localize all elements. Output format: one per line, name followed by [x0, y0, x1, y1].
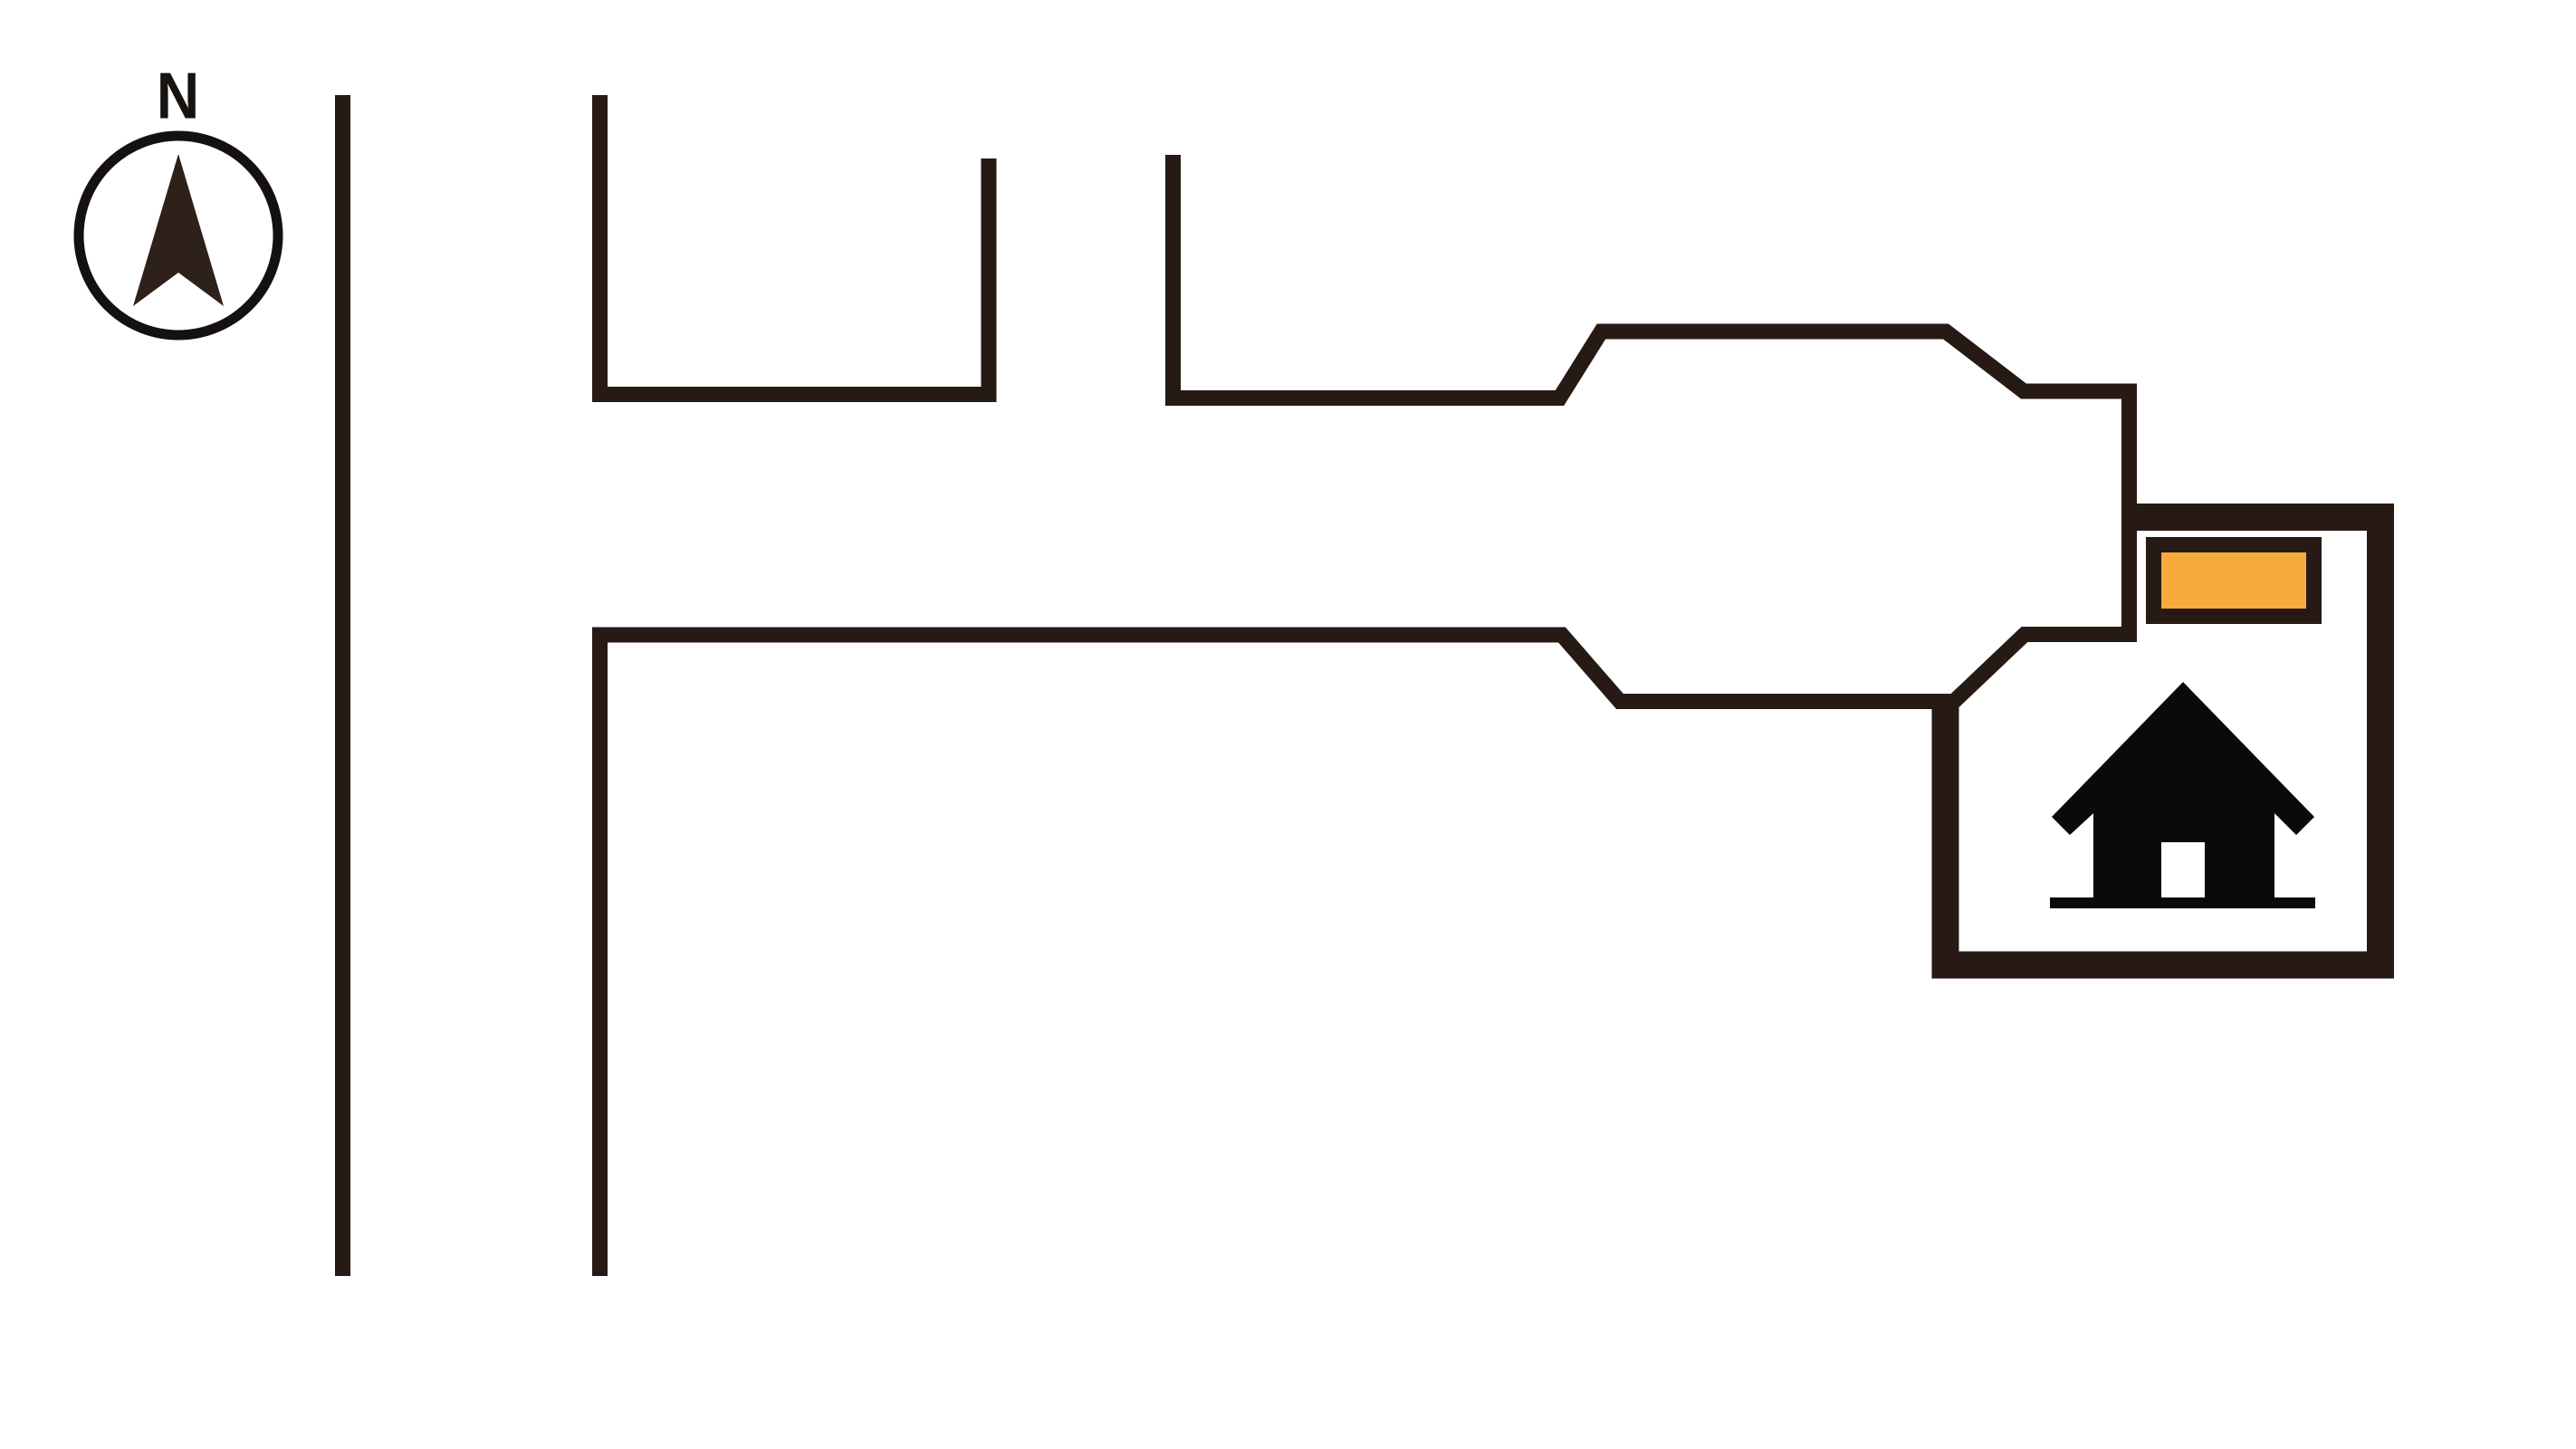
svg-text:N: N: [157, 61, 200, 133]
